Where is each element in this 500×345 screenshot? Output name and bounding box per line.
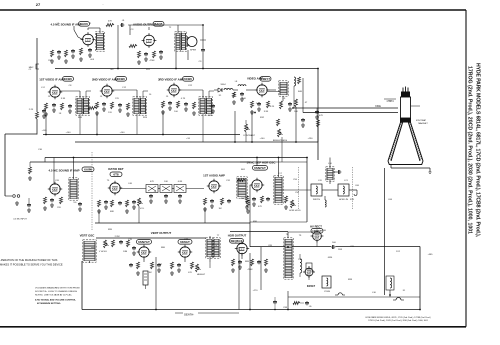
fuse symbol	[393, 298, 404, 301]
svg-text:HOR OUTPUT: HOR OUTPUT	[228, 234, 247, 238]
cluster V12 parts	[170, 262, 194, 275]
svg-text:6CB6: 6CB6	[184, 77, 192, 81]
efficiency coil	[386, 276, 394, 290]
tube V9 1st audio amp	[207, 179, 221, 193]
flyback transformer T10	[284, 238, 293, 279]
svg-text:47K: 47K	[150, 181, 154, 183]
tube V15 damper	[303, 263, 315, 278]
caption bottom right	[365, 316, 430, 322]
svg-text:.0047: .0047	[240, 198, 246, 200]
audio output transformer T2	[175, 32, 187, 51]
svg-text:6CB6: 6CB6	[117, 77, 125, 81]
row3 left stub	[5, 134, 45, 221]
svg-text:10M: 10M	[123, 251, 127, 253]
contrast pot	[243, 120, 256, 142]
svg-text:1M: 1M	[148, 272, 151, 274]
svg-text:HOR HOLD: HOR HOLD	[289, 210, 301, 212]
tube V13 designator	[230, 239, 244, 244]
svg-text:CONTRAST: CONTRAST	[243, 134, 256, 137]
svg-text:27: 27	[36, 2, 41, 7]
cluster V2 parts	[129, 45, 163, 65]
svg-text:+290: +290	[308, 138, 314, 140]
bottom bus components	[273, 297, 312, 310]
top border rule	[0, 9, 466, 11]
svg-text:6SN7GT: 6SN7GT	[138, 240, 150, 244]
capacitor C1	[120, 20, 125, 27]
ratio det transformer T6	[69, 178, 78, 200]
tube V1 6AU6 designator	[79, 22, 90, 27]
svg-text:47K: 47K	[258, 206, 262, 208]
svg-text:+140: +140	[120, 132, 126, 134]
svg-text:-PERATION OF THE MANUFACTURER: -PERATION OF THE MANUFACTURER OF THIS	[0, 258, 58, 262]
page number mark top-left	[36, 2, 105, 7]
svg-text:470K: 470K	[149, 60, 155, 62]
svg-text:SPKR: SPKR	[190, 50, 196, 52]
svg-text:4.5 MC SOUND IF AMP: 4.5 MC SOUND IF AMP	[50, 23, 81, 27]
title text line 1 (rotated)	[475, 63, 481, 238]
HV filter cap	[331, 242, 337, 249]
brightness pot	[240, 108, 319, 162]
tube V5 6CB6 3rd video IF	[167, 83, 181, 97]
svg-text:6AU6: 6AU6	[80, 22, 88, 26]
cluster V9 parts	[203, 198, 250, 213]
tube V6 video amplifier	[255, 83, 269, 97]
svg-text:. .: . .	[102, 2, 105, 6]
svg-text:AT MINIMUM SETTING.: AT MINIMUM SETTING.	[37, 302, 61, 305]
scatter values 2	[29, 23, 393, 281]
CRT labels	[375, 99, 428, 125]
svg-text:HYDE PARK MODELS 6814L, 6817L,: HYDE PARK MODELS 6814L, 6817L, 17CD (2nd…	[365, 316, 430, 319]
left antenna connector	[29, 61, 39, 69]
interstage transformer T7a	[237, 177, 247, 198]
tube V3 6CB6 designator	[63, 77, 74, 82]
svg-text:1ST VIDEO IF AMP: 1ST VIDEO IF AMP	[39, 78, 65, 82]
label 2nd video IF	[92, 78, 118, 82]
CRT face	[388, 161, 423, 165]
de-emphasis network boxes	[120, 185, 204, 204]
svg-text:4.7K: 4.7K	[181, 98, 186, 100]
video amp extra parts	[301, 115, 323, 142]
credit paragraph	[0, 258, 63, 267]
CRT ground return	[391, 165, 432, 174]
svg-text:6W4: 6W4	[328, 257, 333, 259]
width coil box	[311, 184, 322, 201]
bottom border rule	[0, 326, 466, 328]
svg-text:VERT OSC: VERT OSC	[80, 234, 96, 238]
svg-text:47K: 47K	[319, 115, 323, 117]
svg-text:68K: 68K	[110, 211, 114, 213]
svg-text:6SN7GT: 6SN7GT	[254, 166, 266, 170]
svg-text:17BP4: 17BP4	[386, 100, 394, 103]
cluster V7 parts	[43, 197, 82, 211]
dashed section boundaries	[299, 167, 353, 210]
volume pot	[138, 198, 145, 210]
linearity coil box	[338, 184, 349, 201]
svg-text:+385: +385	[428, 254, 434, 256]
cluster V6 parts	[250, 99, 298, 114]
svg-text:2.2M: 2.2M	[115, 236, 120, 238]
tube V3 6CB6 1st video IF	[48, 85, 62, 99]
svg-text:SOCKET B+ LUGS TO CHASSIS UNLE: SOCKET B+ LUGS TO CHASSIS UNLESS	[35, 290, 78, 293]
scatter values 1	[38, 81, 360, 251]
svg-text:AUDIO OUTPUT: AUDIO OUTPUT	[133, 23, 155, 27]
junction dots sound	[117, 24, 204, 69]
vert output transformer T9	[206, 238, 220, 258]
svg-text:2.2K: 2.2K	[29, 109, 34, 111]
svg-text:6BQ6GT: 6BQ6GT	[230, 239, 242, 243]
svg-text:HV RECT: HV RECT	[310, 225, 322, 229]
svg-text:MAKES IT POSSIBLE TO SERVE YOU: MAKES IT POSSIBLE TO SERVE YOU THIS DEVI…	[0, 263, 63, 267]
vert blocking transformer T8	[83, 240, 96, 262]
wire sync row	[282, 158, 357, 223]
stabilizer coil	[326, 167, 334, 181]
tube V2 6AQ5 designator	[153, 22, 164, 27]
4.5MC trap coil	[279, 77, 301, 108]
svg-text:RATIO DET: RATIO DET	[108, 167, 124, 171]
svg-text:2ND VIDEO IF AMP: 2ND VIDEO IF AMP	[92, 78, 118, 82]
svg-text:1ST AUDIO AMP: 1ST AUDIO AMP	[203, 174, 225, 178]
svg-text:MAGNET: MAGNET	[418, 122, 428, 125]
CRT neck	[400, 87, 411, 123]
svg-text:V HOLD: V HOLD	[99, 251, 108, 253]
tube V11 designator	[137, 240, 152, 245]
svg-text:YOKE: YOKE	[324, 291, 331, 293]
label 1st video IF	[39, 78, 65, 82]
label HV rect	[310, 225, 323, 234]
svg-text:+140: +140	[66, 132, 72, 134]
tube V14 HV rectifier	[311, 230, 324, 243]
title text line 2 (rotated)	[467, 66, 473, 234]
svg-text:17ROG (2nd. Prod.), 20CD (2nd.: 17ROG (2nd. Prod.), 20CD (2nd. Prod.), 2…	[467, 66, 473, 234]
svg-text:3.3K: 3.3K	[61, 98, 66, 100]
wire video amp to CRT	[267, 78, 398, 113]
scatter values 3	[48, 84, 433, 294]
CRT anode lead	[385, 168, 391, 296]
IF transformer T4	[133, 97, 147, 115]
cluster V1 bias parts	[48, 48, 95, 63]
svg-text:5%: 5%	[73, 202, 76, 204]
svg-text:6CB6: 6CB6	[64, 77, 72, 81]
IF strip grid wires	[60, 90, 214, 98]
hor hold pot	[289, 200, 301, 212]
tube V12 vertical output	[178, 245, 192, 259]
row3 wires	[54, 157, 308, 184]
label 4.5MC sound IF amp	[50, 23, 81, 27]
wire V1 grid	[74, 26, 83, 40]
vert hold pot	[99, 240, 109, 253]
tube V2 6AQ5 audio output	[142, 33, 157, 48]
tube V12 designator	[178, 240, 192, 245]
IF transformer T5	[199, 97, 213, 115]
tube V4 6CB6 2nd video IF	[100, 84, 114, 98]
svg-text:10K: 10K	[242, 98, 246, 100]
svg-text:A NO SIGNAL AND VOLUME CONTROL: A NO SIGNAL AND VOLUME CONTROL	[35, 299, 77, 302]
label 3rd video IF	[158, 78, 184, 82]
flyback secondary bumps	[300, 254, 302, 277]
svg-text:BRIGHTNESS: BRIGHTNESS	[273, 140, 288, 142]
vert row wires	[90, 257, 421, 310]
cluster V4 parts	[88, 102, 130, 116]
wire HV line	[335, 247, 420, 310]
wire hor out top	[250, 232, 331, 247]
cluster V5 parts	[161, 101, 215, 115]
CRT funnel left side	[388, 123, 403, 162]
svg-text:GEATH-: GEATH-	[184, 313, 194, 317]
IF bus risers	[46, 107, 296, 142]
video detector diode	[218, 88, 236, 104]
electrolytic cap C70	[143, 271, 148, 289]
svg-text:6AQ5: 6AQ5	[155, 22, 163, 26]
sync row wires	[250, 157, 307, 222]
hor osc coil T7	[274, 176, 283, 204]
tube V13 horizontal output	[235, 241, 249, 255]
IF bus junction dots	[45, 68, 319, 143]
wire left vertical feed	[36, 38, 38, 135]
svg-text:VERT OUTPUT: VERT OUTPUT	[151, 231, 172, 235]
svg-text:6T8: 6T8	[113, 173, 119, 177]
svg-text:HYDE PARK MODELS 6814L, 6817L,: HYDE PARK MODELS 6814L, 6817L, 17CD (2nd…	[475, 63, 481, 238]
svg-text:NOTED. LINE VOLTAGE AT 117V AC: NOTED. LINE VOLTAGE AT 117V AC.	[35, 294, 73, 297]
B+ bus sound section	[55, 68, 318, 70]
quadrature coil T1	[95, 32, 104, 51]
row3 bottom bus	[95, 222, 250, 224]
cap stabilizer	[333, 170, 341, 174]
svg-text:3RD VIDEO IF AMP: 3RD VIDEO IF AMP	[158, 78, 184, 82]
label ratio det	[108, 167, 124, 171]
tube V8 ratio detector	[108, 181, 122, 195]
cluster V10 parts	[237, 179, 288, 210]
cluster V11 parts	[129, 262, 161, 275]
svg-text:SYNC SEP HOR OSC: SYNC SEP HOR OSC	[247, 161, 277, 165]
label vert osc	[80, 231, 172, 238]
vert bottom bus	[82, 309, 420, 311]
svg-text:KINE: KINE	[375, 105, 381, 108]
svg-text:8.2K: 8.2K	[270, 106, 275, 108]
cluster V3 parts	[29, 103, 72, 132]
height pot	[196, 264, 206, 276]
wire right section	[288, 278, 420, 297]
IF transformer T3	[76, 97, 90, 115]
fuse symbol 2	[335, 293, 345, 295]
svg-text:+105: +105	[42, 130, 48, 132]
peaking coil L1	[238, 85, 246, 102]
svg-text:ION TRAP: ION TRAP	[416, 119, 427, 122]
svg-text:6.8K: 6.8K	[178, 181, 183, 183]
capacitor C9 bus	[200, 25, 206, 69]
svg-text:+270: +270	[253, 290, 259, 292]
damper label	[307, 285, 316, 288]
svg-text:10K: 10K	[164, 181, 168, 183]
svg-text:4.5 MC SOUND IF AMP: 4.5 MC SOUND IF AMP	[48, 169, 79, 173]
svg-text:1M: 1M	[218, 208, 221, 210]
svg-text:1N64: 1N64	[220, 84, 226, 86]
IF bottom bus	[43, 135, 318, 143]
tube V4 6CB6 designator	[116, 77, 127, 82]
tube V7 sound IF amp	[48, 182, 62, 196]
wire vert section	[82, 234, 239, 310]
speaker SP1	[187, 37, 197, 52]
tube V5 6CB6 designator	[183, 77, 194, 82]
svg-text:12BY7: 12BY7	[261, 77, 271, 81]
row3 risers	[99, 206, 250, 247]
dashed boundary row3	[91, 152, 93, 230]
cluster V8 parts	[97, 200, 136, 213]
svg-text:6W4GT: 6W4GT	[307, 285, 316, 288]
wire flyback risers	[250, 232, 309, 310]
svg-text:HOR LIN: HOR LIN	[339, 199, 348, 201]
svg-text:47K: 47K	[108, 21, 112, 23]
tube V11 vertical oscillator	[137, 245, 151, 259]
tube V10 designator	[253, 166, 268, 171]
wire top audio row	[128, 25, 203, 35]
wire bus right leg	[317, 69, 319, 161]
label 1st audio	[203, 174, 225, 178]
hor out wires	[230, 232, 289, 291]
resistor R1	[106, 21, 114, 27]
svg-text:VOLTAGES MEASURED WITH VTVM FR: VOLTAGES MEASURED WITH VTVM FROM	[35, 287, 80, 290]
tube V1 6AU6 sound IF amp	[81, 32, 96, 47]
yoke plug	[322, 276, 331, 293]
label sync sep	[247, 161, 277, 165]
label audio output	[133, 23, 155, 27]
coil below width boxes	[325, 196, 326, 207]
vert osc rc parts	[112, 238, 137, 255]
tube V7 designator	[82, 167, 94, 172]
label sound IF	[48, 169, 79, 173]
svg-text:17ROG (2nd. Prod.), 20CD (2nd.: 17ROG (2nd. Prod.), 20CD (2nd. Prod.), 2…	[368, 319, 428, 322]
svg-text:4.5 MC INPUT: 4.5 MC INPUT	[13, 219, 27, 221]
svg-text:2.2K: 2.2K	[256, 103, 261, 105]
tube V10 sync separator / hor osc	[250, 178, 264, 192]
svg-text:WIDTH: WIDTH	[313, 199, 321, 201]
note paragraph	[35, 287, 80, 306]
label B+ boost	[175, 313, 239, 317]
right frame divider	[465, 10, 467, 327]
cluster hor out parts	[231, 259, 268, 272]
label hor output	[228, 234, 247, 238]
svg-text:3.9K: 3.9K	[264, 111, 269, 113]
B+ bus row3	[30, 158, 307, 163]
wire V1 plate to coil	[88, 28, 100, 33]
svg-text:HEIGHT: HEIGHT	[197, 274, 206, 276]
wire audio B+ drop	[118, 25, 188, 69]
tube V8 designator	[110, 172, 122, 177]
svg-text:VOL: VOL	[140, 208, 145, 210]
CRT funnel right side	[408, 123, 423, 162]
svg-text:+140: +140	[260, 138, 266, 140]
tube V6 designator	[260, 77, 271, 82]
video det wires	[214, 86, 294, 113]
label video amp	[247, 77, 263, 81]
